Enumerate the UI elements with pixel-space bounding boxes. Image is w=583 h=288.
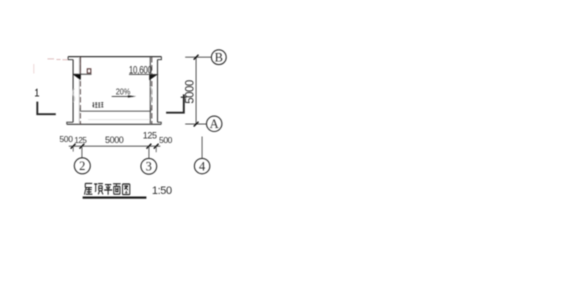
axis 2 extension to circle	[81, 146, 83, 158]
faint section line hint above mark 1	[33, 64, 35, 74]
axis 3 extension to circle	[148, 146, 150, 158]
section cut mark 1 (right): L line	[166, 94, 184, 112]
faint interior squiggle left	[73, 89, 75, 103]
title underline	[83, 197, 147, 199]
axis circle 2	[74, 158, 90, 174]
title glyph MIAN (surface)	[113, 184, 121, 194]
faint pink axis-B dashes left of corner	[48, 58, 68, 61]
dim tick at eave right	[154, 144, 159, 149]
svg-text:2: 2	[79, 159, 85, 173]
axis A horizontal line	[185, 123, 206, 125]
section cut mark 1 (left): L line	[37, 102, 56, 115]
svg-text:A: A	[210, 117, 219, 131]
tiny note glyphs (wai qiang bian xian)	[93, 102, 104, 107]
dim tick at B	[194, 55, 199, 60]
axis B horizontal line	[185, 56, 211, 58]
dim tick at eave left	[71, 144, 76, 149]
svg-text:500: 500	[159, 135, 173, 145]
top-left eave tab	[68, 57, 73, 60]
svg-text:5000: 5000	[105, 135, 124, 145]
witness stub below right eave tick	[155, 146, 157, 152]
dim tick at axis 2	[80, 144, 85, 149]
axis line 2 (dashed)	[79, 57, 81, 124]
faint interior squiggle right	[151, 87, 153, 104]
bottom-right eave tab	[158, 122, 162, 124]
right elevation line (under 10,600)	[129, 73, 158, 75]
svg-text:125: 125	[143, 130, 157, 140]
svg-text:1:50: 1:50	[152, 185, 172, 197]
faint interior bottom ghost line	[88, 119, 150, 121]
slope arrow line	[112, 95, 133, 97]
vertical dimension line A-B	[195, 57, 197, 124]
left rain-outlet elevation line	[73, 73, 92, 75]
interior leader line (wall edge note)	[80, 110, 151, 112]
svg-text:20%: 20%	[116, 87, 131, 97]
svg-text:3: 3	[146, 160, 152, 174]
leader end tick left	[79, 108, 81, 112]
section cut mark 1 (left): number	[35, 89, 39, 96]
dim tick at A	[194, 122, 199, 127]
svg-text:10,600: 10,600	[129, 64, 152, 77]
bottom dimension line	[69, 145, 161, 147]
slope arrowhead	[128, 95, 136, 97]
axis circle 3	[141, 158, 157, 174]
roof bottom edge line	[67, 123, 161, 125]
leader end tick right	[150, 108, 152, 112]
witness stub below left eave tick	[72, 146, 74, 151]
title glyph TU (plan)	[123, 184, 130, 195]
svg-text:125: 125	[74, 136, 87, 145]
bottom-left eave tab	[67, 122, 73, 124]
top-right eave tab	[158, 57, 162, 60]
axis circle B	[211, 50, 226, 65]
section cut mark 1 (right): tick	[181, 96, 187, 98]
title glyph DING (top)	[94, 184, 103, 195]
axis line 2 solid upper segment	[79, 57, 81, 74]
svg-text:500: 500	[59, 134, 73, 144]
svg-text:5000: 5000	[183, 79, 196, 103]
right wall inner line	[149, 57, 151, 123]
dim tick at axis 3	[147, 144, 152, 149]
right wall outer line	[157, 60, 159, 123]
title glyph WU (roof)	[84, 183, 92, 194]
axis line 3 (dashed)	[151, 57, 153, 124]
roof top edge line	[68, 56, 161, 58]
left wall inner line	[78, 57, 80, 123]
axis 4 stem line	[201, 137, 203, 159]
axis circle A	[207, 116, 222, 131]
svg-text:4: 4	[199, 160, 206, 174]
right elevation filled triangle	[149, 75, 157, 81]
axis circle 4	[194, 158, 209, 173]
left rain-outlet filled triangle	[73, 74, 81, 80]
rain pipe square symbol	[87, 69, 91, 73]
title glyph PING (flat)	[104, 185, 112, 195]
left wall outer line	[72, 60, 74, 123]
svg-text:B: B	[215, 51, 223, 65]
